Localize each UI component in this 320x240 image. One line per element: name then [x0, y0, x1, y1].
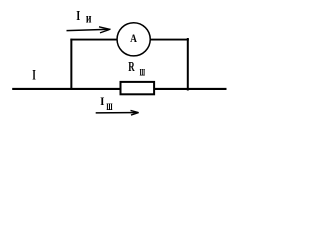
svg-text:I: I: [100, 94, 105, 108]
svg-text:ш: ш: [106, 99, 112, 114]
svg-text:I: I: [32, 68, 36, 84]
svg-text:и: и: [86, 11, 92, 26]
ammeter U1 (circle with letter A): [117, 23, 150, 56]
wire: right riser from ammeter branch to bus: [187, 38, 189, 91]
current arrow Ish (through shunt): [96, 110, 139, 115]
label Iu (current through meter): [76, 9, 91, 27]
svg-text:A: A: [130, 31, 137, 45]
svg-text:ш: ш: [140, 63, 146, 78]
wire: main horizontal bus: [12, 88, 226, 90]
wire: left riser from bus to ammeter branch: [70, 39, 72, 90]
svg-text:I: I: [76, 9, 80, 24]
label Ish (current through shunt): [100, 94, 113, 114]
svg-text:R: R: [128, 60, 135, 75]
wire: top branch left segment to ammeter: [70, 39, 118, 41]
label Rsh: [128, 60, 145, 78]
resistor Rsh (shunt): [121, 82, 155, 94]
current arrow Iu (through ammeter): [67, 27, 111, 33]
wire: top branch right segment from ammeter: [150, 39, 189, 41]
